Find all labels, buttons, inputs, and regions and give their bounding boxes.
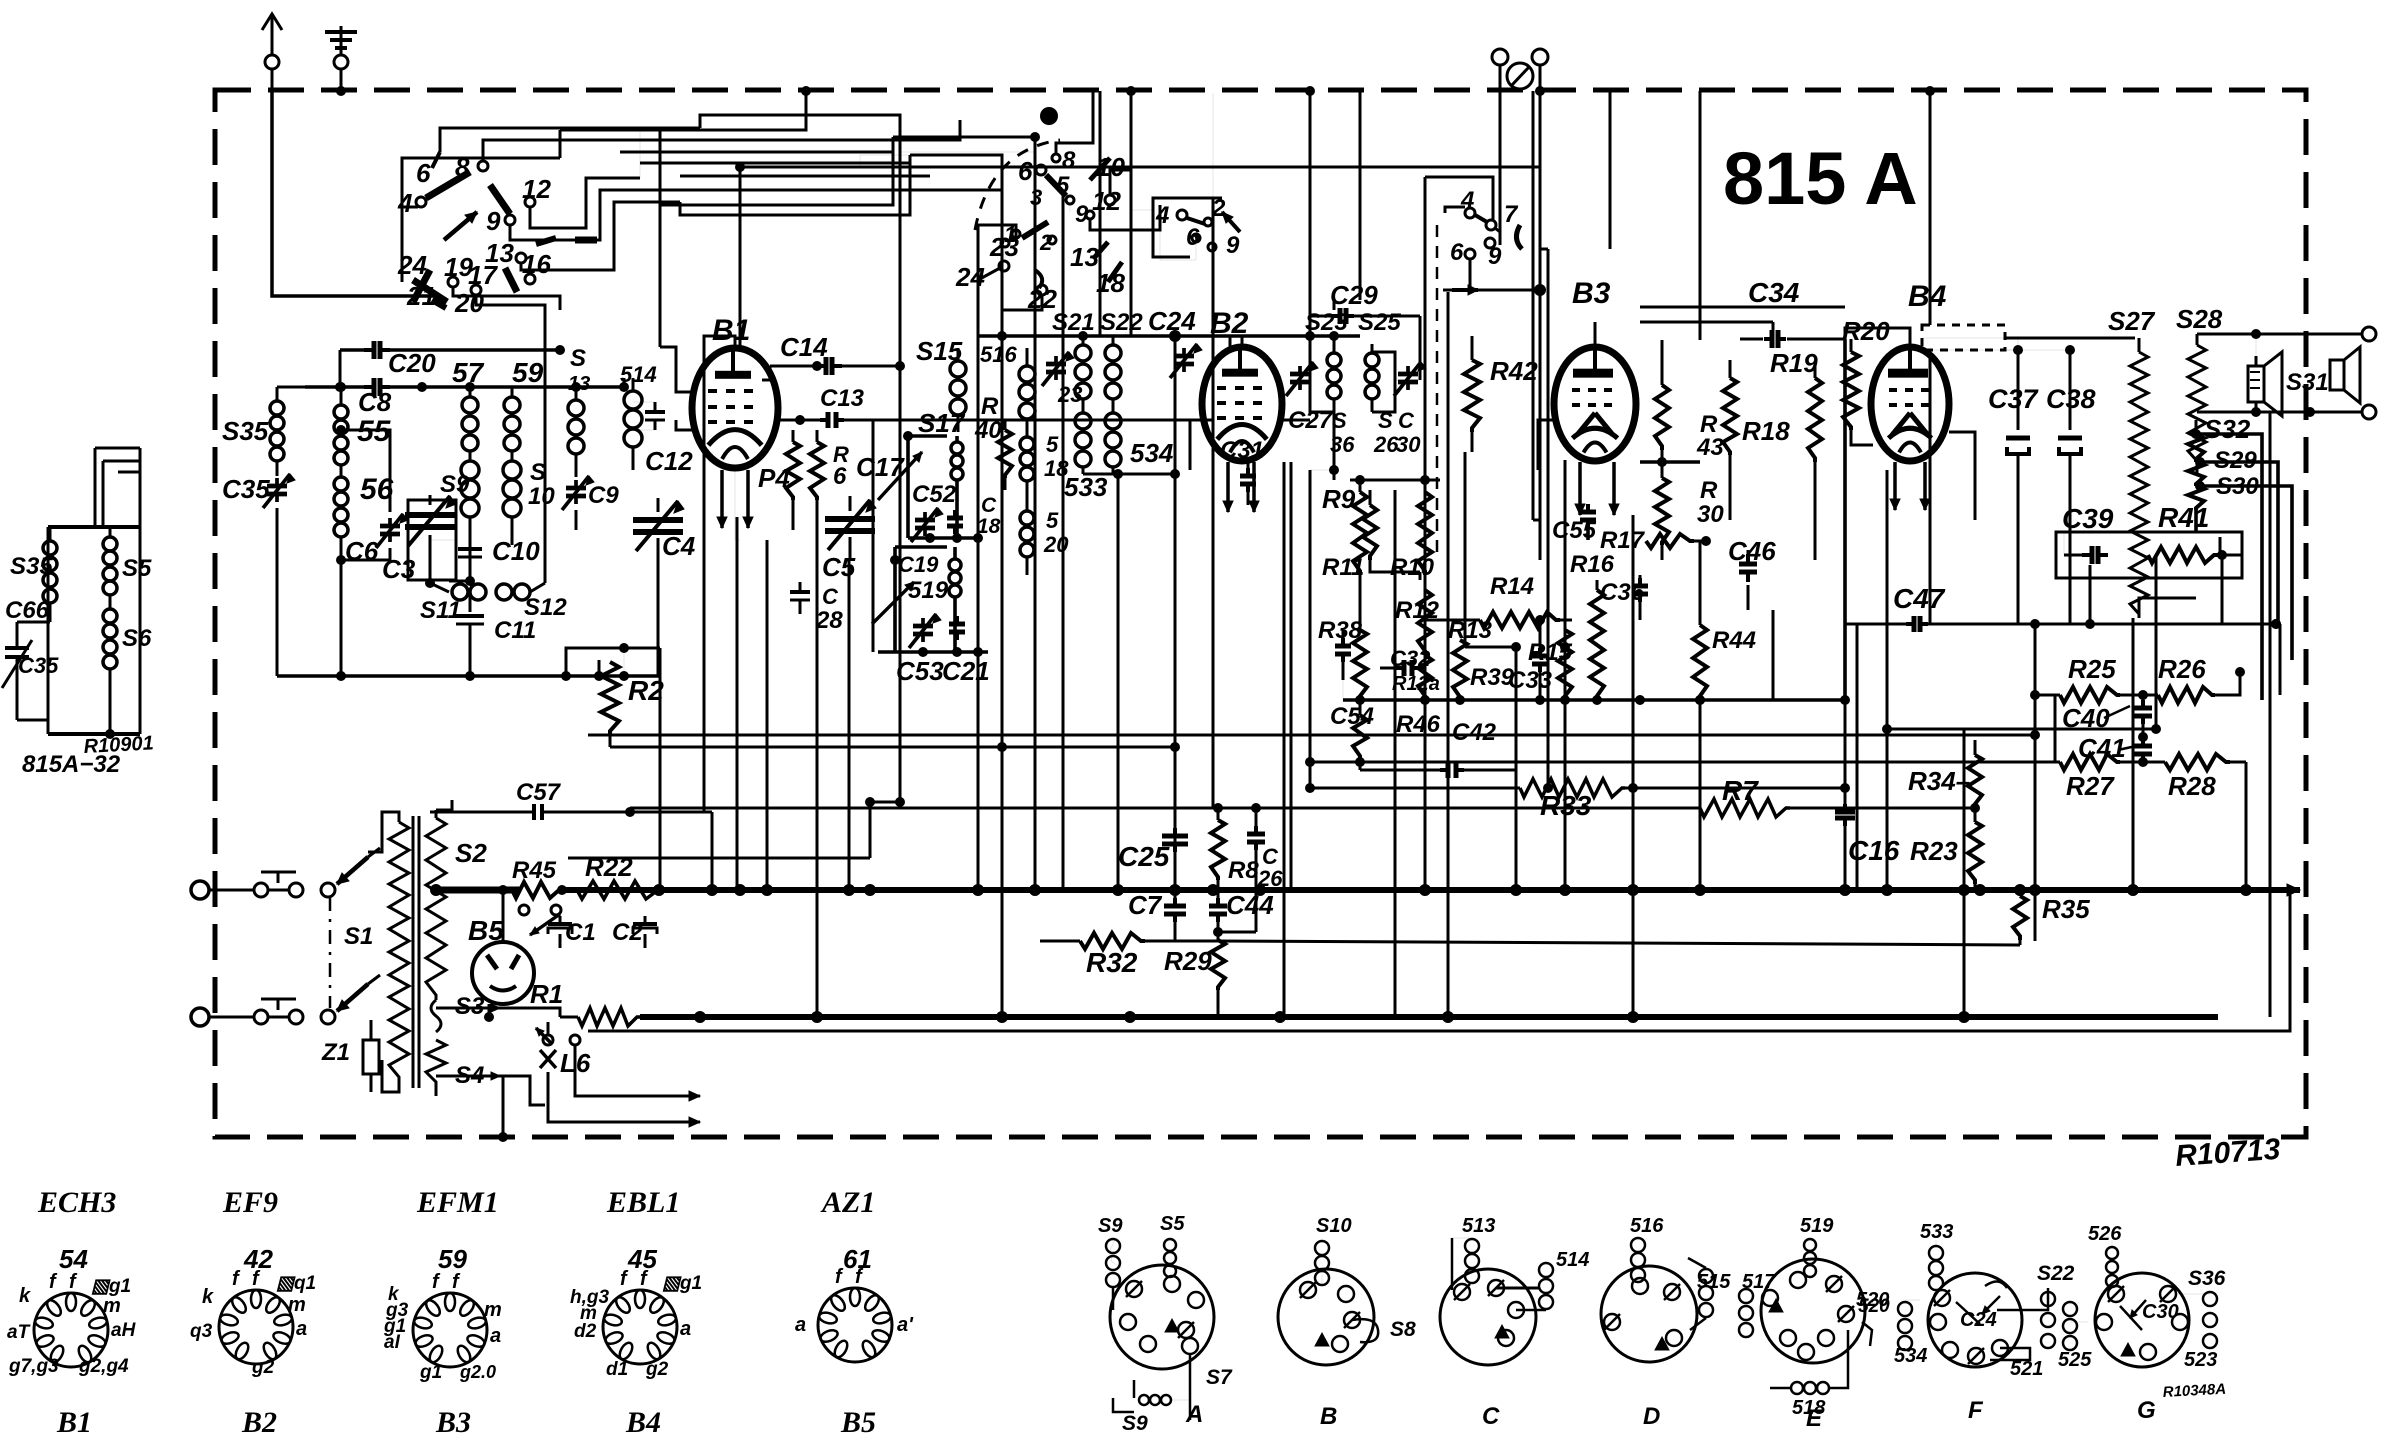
- coil unit B labels: [0, 0, 1, 1]
- svg-text:23: 23: [1057, 382, 1082, 407]
- B3 top wire: [1594, 322, 1597, 347]
- svg-text:S22: S22: [1100, 309, 1143, 336]
- svg-text:7: 7: [1504, 201, 1519, 228]
- coil S9 upper: [504, 387, 520, 451]
- B3 cathode arrows: [1575, 462, 1619, 515]
- wire junction: [1511, 642, 1521, 652]
- wire: [1419, 336, 1422, 380]
- trimmer C53: [909, 614, 941, 648]
- svg-text:C24: C24: [1148, 306, 1196, 336]
- coil S17: [903, 431, 963, 538]
- resistor R41: [2148, 547, 2242, 563]
- socket B3 pin labels: [383, 1271, 502, 1383]
- wire: [1844, 700, 1847, 790]
- svg-text:R16: R16: [1570, 551, 1615, 578]
- svg-text:S4: S4: [455, 1062, 484, 1089]
- center switch contact 5: [1056, 172, 1074, 204]
- wire junction: [1840, 695, 1850, 705]
- wire: [869, 802, 872, 858]
- svg-text:R20: R20: [1842, 316, 1890, 346]
- svg-text:R41: R41: [2158, 502, 2209, 533]
- B1 wires: [660, 128, 800, 812]
- resistor R45: [505, 882, 567, 935]
- ground: [325, 26, 357, 96]
- coil S21: [1075, 331, 1091, 412]
- svg-text:R38: R38: [1318, 617, 1363, 644]
- capacitor C46: [1739, 550, 1757, 610]
- svg-text:20: 20: [454, 288, 484, 318]
- svg-text:aT: aT: [7, 1322, 31, 1343]
- capacitor C18pair: [947, 510, 963, 534]
- tube B4: [1871, 347, 1949, 461]
- wire: [680, 175, 930, 178]
- wire: [1515, 647, 1518, 890]
- svg-text:59: 59: [512, 357, 544, 388]
- varcap C35 trimmer: [263, 474, 295, 676]
- svg-text:R13: R13: [1448, 617, 1493, 644]
- coil S34: [1105, 413, 1121, 474]
- wire: [1564, 460, 1567, 890]
- wire: [1532, 91, 1535, 520]
- svg-text:S36: S36: [2188, 1267, 2226, 1290]
- svg-text:C31: C31: [1220, 437, 1264, 464]
- wire: [977, 225, 980, 890]
- center switch contact 21: [1039, 230, 1056, 255]
- capacitor C42: [1360, 762, 1516, 778]
- coil S10 lower: [503, 452, 521, 545]
- svg-text:513: 513: [1462, 1215, 1495, 1237]
- svg-text:A: A: [1185, 1401, 1203, 1428]
- svg-text:R28: R28: [2168, 771, 2216, 801]
- svg-text:6: 6: [833, 463, 847, 490]
- svg-text:C8: C8: [358, 387, 392, 417]
- svg-text:525: 525: [2058, 1349, 2092, 1371]
- svg-text:6: 6: [1018, 156, 1033, 186]
- svg-text:515: 515: [1697, 1271, 1731, 1293]
- transformer secondary S4: [426, 1040, 500, 1096]
- svg-text:C34: C34: [1748, 277, 1800, 308]
- wire: [1547, 249, 1550, 788]
- wire: [1310, 761, 2055, 764]
- coil S19 box: [890, 547, 961, 652]
- unit A coil labels: [1098, 1213, 1233, 1435]
- center switch blade a: [1046, 175, 1066, 196]
- cluster top wire: [1350, 475, 1440, 485]
- svg-text:30: 30: [1396, 432, 1421, 457]
- svg-text:R18: R18: [1742, 416, 1790, 446]
- center switch contact 23: [989, 232, 1019, 262]
- svg-text:C1: C1: [565, 919, 596, 946]
- antenna: [262, 14, 282, 90]
- resistor R12: [1418, 575, 1432, 655]
- svg-text:C14: C14: [780, 332, 828, 362]
- switch contact 13: [485, 238, 526, 268]
- capacitor C31: [1240, 458, 1256, 505]
- resistor R43: [1640, 370, 1700, 467]
- center switch wires: [860, 91, 1160, 890]
- switch wire bundle: [402, 120, 960, 330]
- transformer secondary S2: [426, 800, 452, 1000]
- svg-text:R23: R23: [1910, 836, 1958, 866]
- tube B2: [1202, 347, 1282, 461]
- svg-text:R44: R44: [1712, 627, 1756, 654]
- socket B5 pin labels: [795, 1266, 914, 1336]
- svg-text:g2: g2: [251, 1357, 275, 1378]
- svg-text:S: S: [570, 345, 586, 372]
- resistor R7: [630, 799, 1975, 817]
- svg-text:R35: R35: [2042, 894, 2090, 924]
- gram terminal 2: [1532, 49, 1548, 290]
- coil unit E can: [1739, 1239, 1872, 1394]
- resistor R19: [1808, 362, 1822, 478]
- tone winding S30: [2188, 486, 2204, 533]
- svg-text:a: a: [490, 1325, 501, 1347]
- svg-text:12: 12: [1092, 186, 1121, 216]
- svg-text:514: 514: [620, 362, 657, 387]
- wire: [1963, 729, 1966, 1017]
- svg-text:B2: B2: [1210, 307, 1249, 340]
- wire: [872, 420, 875, 652]
- svg-text:43: 43: [1696, 434, 1724, 461]
- coil S23: [1327, 331, 1341, 412]
- svg-text:R34–: R34–: [1908, 766, 1970, 796]
- coil unit G can: [2063, 1240, 2217, 1367]
- cluster left frame wires: [1310, 470, 1343, 790]
- wire: [1419, 316, 1422, 336]
- switch S1 blade bottom: [337, 975, 380, 1011]
- resistor R15: [1558, 620, 1572, 700]
- wire junction: [895, 797, 905, 807]
- resistor R18: [1723, 360, 1737, 470]
- wire: [1174, 336, 1177, 810]
- svg-text:f: f: [69, 1271, 78, 1293]
- wire: [899, 140, 902, 802]
- svg-text:5: 5: [1046, 508, 1059, 533]
- svg-text:S11: S11: [420, 597, 461, 624]
- varcap S25 trimmer: [1394, 362, 1426, 396]
- svg-text:B3: B3: [1572, 277, 1611, 310]
- wire: [1464, 452, 1467, 647]
- lower bus wire: [640, 1011, 2218, 1023]
- wire: [1540, 248, 1548, 251]
- svg-text:R11: R11: [1322, 554, 1364, 581]
- coil S15: [950, 348, 966, 432]
- primary S27: [2130, 338, 2148, 618]
- svg-text:C55: C55: [1552, 517, 1597, 544]
- svg-text:S27: S27: [2108, 306, 2156, 336]
- wire: [2279, 624, 2282, 695]
- svg-text:m: m: [288, 1294, 306, 1316]
- svg-text:C35: C35: [222, 474, 270, 504]
- svg-text:815A−32: 815A−32: [22, 751, 121, 778]
- svg-text:C7: C7: [1128, 890, 1163, 920]
- svg-text:g2.0: g2.0: [459, 1362, 496, 1382]
- wire: [1729, 470, 1732, 520]
- voltage selector contacts top: [243, 872, 335, 897]
- svg-text:C25: C25: [1118, 841, 1170, 872]
- wire: [1465, 646, 1516, 649]
- svg-text:20: 20: [1043, 532, 1069, 557]
- R32 line: [1218, 941, 2020, 945]
- svg-text:R10348A: R10348A: [2162, 1381, 2226, 1401]
- capacitor C44: [1209, 890, 1256, 937]
- svg-text:R: R: [1700, 477, 1718, 504]
- svg-text:S35: S35: [10, 553, 53, 580]
- switch blade 4-8: [426, 172, 470, 198]
- center switch contact 9 mid: [1075, 201, 1094, 228]
- svg-text:C21: C21: [942, 656, 990, 686]
- svg-text:EFM1: EFM1: [416, 1186, 499, 1219]
- unit D coil labels: [1630, 1215, 1731, 1293]
- pickup switch right wires: [1437, 207, 1546, 560]
- center switch contact 24: [955, 261, 1009, 292]
- wire junction: [1030, 132, 1040, 142]
- varcap S21 trimmer: [1042, 352, 1074, 386]
- svg-text:533: 533: [1920, 1221, 1953, 1243]
- capacitor C8: [305, 378, 460, 396]
- wire: [1609, 91, 1612, 249]
- svg-text:F: F: [1968, 1397, 1984, 1424]
- wire: [1887, 728, 2156, 731]
- wire: [2132, 618, 2135, 890]
- svg-text:R25: R25: [2068, 654, 2116, 684]
- svg-text:S10: S10: [1316, 1215, 1352, 1237]
- B1 cathode arrows: [717, 470, 753, 528]
- wire: [1533, 519, 1540, 522]
- svg-text:R: R: [981, 393, 999, 420]
- svg-text:m: m: [484, 1299, 502, 1321]
- wire: [1699, 700, 1702, 890]
- resistor R16: [1590, 580, 1604, 700]
- wire: [1212, 198, 1215, 808]
- svg-text:C: C: [822, 584, 839, 609]
- coil S33: [1075, 413, 1091, 474]
- resistor R28: [2143, 754, 2246, 770]
- wire junction: [1355, 757, 1365, 767]
- svg-text:815 A: 815 A: [1723, 137, 1918, 220]
- wire: [1394, 490, 1397, 700]
- fuse Z1: [363, 1020, 379, 1092]
- wire: [1099, 91, 1102, 336]
- coil unit F can: [1898, 1240, 2055, 1367]
- wire: [1539, 290, 1542, 560]
- wire: [1661, 340, 1664, 370]
- switch contact 6: [416, 152, 440, 188]
- svg-text:S25: S25: [1358, 309, 1401, 336]
- coil unit E labels: [0, 0, 1, 1]
- svg-text:C46: C46: [1728, 536, 1776, 566]
- svg-text:a: a: [680, 1318, 691, 1340]
- switch contact 20: [454, 288, 484, 318]
- wire: [1424, 290, 1427, 890]
- svg-text:R12a: R12a: [1392, 673, 1440, 695]
- svg-text:519: 519: [908, 577, 949, 604]
- svg-text:8: 8: [1062, 147, 1076, 174]
- svg-text:S15: S15: [916, 336, 963, 366]
- svg-text:S22: S22: [2037, 1262, 2075, 1285]
- resistor R33: [1310, 779, 1845, 797]
- wire: [1359, 572, 1362, 575]
- svg-text:aI: aI: [384, 1332, 401, 1353]
- capacitor C28: [790, 582, 810, 614]
- wire: [2054, 695, 2057, 762]
- border junction dots: [801, 86, 1935, 96]
- svg-text:f: f: [452, 1271, 461, 1293]
- drawing number R10713: [2174, 1133, 2281, 1173]
- tube B3: [1554, 347, 1636, 461]
- svg-text:C41: C41: [2078, 733, 2126, 763]
- svg-text:R7: R7: [1722, 775, 1759, 806]
- center switch dashed arc: [975, 140, 1060, 230]
- capacitor C39: [2064, 546, 2108, 564]
- resistor R23: [1968, 808, 1982, 890]
- svg-text:S32: S32: [2204, 414, 2251, 444]
- svg-text:a': a': [897, 1314, 914, 1336]
- coil unit F labels: [0, 0, 1, 1]
- inset wire box: [48, 448, 140, 739]
- switch contact 21: [406, 281, 446, 311]
- svg-text:R26: R26: [2158, 654, 2206, 684]
- svg-text:4: 4: [1155, 202, 1169, 229]
- svg-text:S5: S5: [1160, 1213, 1185, 1235]
- resistor R4: [786, 430, 800, 530]
- svg-text:g1: g1: [419, 1362, 442, 1383]
- wire: [711, 812, 714, 890]
- svg-text:S8: S8: [1390, 1318, 1416, 1341]
- capacitor C11: [456, 592, 484, 676]
- transformer core: [413, 816, 419, 1088]
- secondary S28: [2188, 334, 2206, 475]
- resistor R42: [1464, 336, 1480, 452]
- svg-text:10: 10: [528, 483, 555, 510]
- svg-text:S9: S9: [1098, 1215, 1123, 1237]
- pickup switch left box: [1153, 195, 1240, 259]
- svg-text:518: 518: [1792, 1397, 1826, 1419]
- wire: [2089, 565, 2092, 624]
- svg-text:C10: C10: [492, 536, 540, 566]
- wire: [1062, 190, 1065, 890]
- wire: [740, 166, 1540, 169]
- wire junction: [997, 742, 1007, 752]
- socket B2 pin labels: [190, 1268, 316, 1378]
- resistor R26: [2143, 667, 2245, 703]
- varcap C17: [825, 496, 876, 560]
- coil S7: [462, 382, 478, 451]
- speaker S31: [2248, 352, 2282, 416]
- svg-text:▧g1: ▧g1: [91, 1276, 131, 1297]
- capacitor C25: [1162, 810, 1188, 890]
- svg-text:Z1: Z1: [321, 1039, 350, 1066]
- resistor R2: [601, 662, 619, 747]
- center switch contact 13 right: [1070, 242, 1108, 272]
- B3 grid wire: [1538, 420, 1554, 470]
- resistor R22: [577, 881, 662, 899]
- center switch contact 12: [1092, 186, 1121, 216]
- switch contact 12: [522, 174, 551, 207]
- svg-text:59: 59: [438, 1244, 467, 1274]
- svg-text:C29: C29: [1330, 280, 1378, 310]
- coil unit C labels: [0, 0, 1, 1]
- waveband switch frame: [402, 130, 560, 282]
- coil S22: [1105, 336, 1121, 412]
- svg-text:R45: R45: [512, 857, 557, 884]
- output wires to terminals: [2197, 327, 2376, 419]
- wire: [2034, 624, 2037, 941]
- svg-text:4: 4: [397, 188, 413, 218]
- wire: [1283, 462, 1286, 1017]
- switch arrow up: [444, 212, 477, 240]
- center switch contact 18: [1096, 262, 1125, 298]
- switch contact 8: [455, 152, 488, 182]
- svg-text:C30: C30: [2142, 1301, 2179, 1323]
- resistor R14: [1480, 612, 1560, 628]
- svg-text:C66: C66: [5, 597, 50, 624]
- wire: [893, 136, 1035, 139]
- B1 grid side wire: [676, 420, 692, 430]
- svg-text:C6: C6: [345, 536, 379, 566]
- svg-text:P4: P4: [758, 463, 790, 493]
- svg-text:519: 519: [1800, 1215, 1834, 1237]
- svg-text:aH: aH: [111, 1320, 137, 1341]
- wire: [736, 517, 739, 890]
- transformer center tap wires: [430, 884, 560, 1105]
- capacitor C29: [1310, 300, 1420, 352]
- wire: [1419, 572, 1422, 580]
- svg-text:B4: B4: [1908, 280, 1947, 313]
- wire: [1229, 336, 1232, 348]
- svg-text:R29: R29: [1164, 946, 1212, 976]
- svg-text:C37: C37: [1988, 384, 2040, 414]
- wire junction: [1560, 642, 1570, 652]
- B2 wires: [1190, 336, 1310, 470]
- coil S5: [334, 382, 348, 465]
- wire: [1117, 474, 1120, 890]
- switch contact 19: [444, 252, 473, 287]
- transformer primary winding: [368, 812, 409, 1092]
- svg-text:9: 9: [486, 206, 501, 236]
- wire: [816, 540, 819, 890]
- svg-text:C12: C12: [645, 446, 693, 476]
- coil unit D can: [1601, 1238, 1713, 1362]
- wire junction: [1882, 724, 1892, 734]
- svg-text:R17: R17: [1600, 527, 1646, 554]
- svg-text:S7: S7: [1206, 1366, 1233, 1389]
- svg-text:▧g1: ▧g1: [662, 1273, 702, 1294]
- unit F coil labels: [1858, 1221, 2075, 1380]
- svg-text:S5: S5: [122, 555, 152, 582]
- varcap C3: [405, 495, 456, 588]
- svg-text:C4: C4: [662, 531, 696, 561]
- wire junction: [1305, 757, 1315, 767]
- capacitor C10: [458, 545, 482, 586]
- svg-text:B: B: [1320, 1403, 1337, 1430]
- border dashed box: [215, 90, 2306, 1137]
- svg-text:a: a: [795, 1314, 806, 1336]
- trimmer C52: [911, 508, 943, 542]
- svg-text:d1: d1: [606, 1359, 628, 1380]
- svg-text:S28: S28: [2176, 304, 2223, 334]
- tube socket B5 circle: [818, 1288, 892, 1362]
- svg-text:B5: B5: [468, 915, 504, 946]
- capacitor C16: [1835, 790, 1855, 890]
- varcap C27 trimmer: [1286, 362, 1318, 396]
- center switch blade b: [1022, 222, 1048, 238]
- wire: [2219, 537, 2222, 555]
- wire junction: [2151, 724, 2161, 734]
- inset coil S35: [43, 527, 57, 622]
- capacitor C47: [1845, 616, 2281, 632]
- varcap C9 trimmer: [562, 476, 594, 530]
